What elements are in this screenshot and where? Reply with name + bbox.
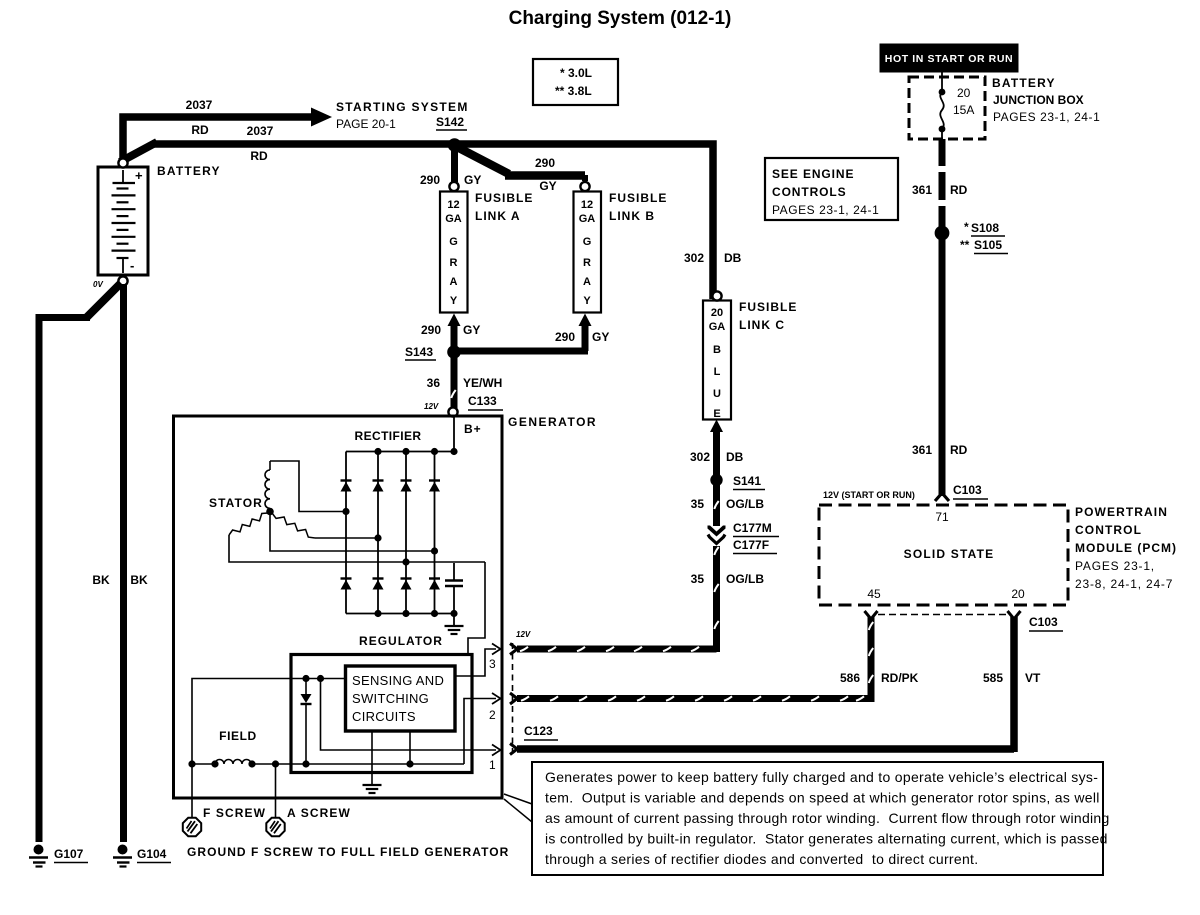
generator box bbox=[174, 416, 503, 798]
junction dots bottom bus bbox=[374, 610, 457, 617]
svg-text:U: U bbox=[713, 388, 721, 400]
rectifier diode D8 (lower) bbox=[429, 579, 440, 590]
pin 71 label bbox=[935, 510, 949, 524]
svg-text:C177F: C177F bbox=[733, 538, 769, 552]
svg-text:GA: GA bbox=[709, 321, 726, 333]
svg-text:RD: RD bbox=[250, 149, 268, 163]
svg-text:A: A bbox=[583, 276, 591, 288]
C177F label bbox=[733, 538, 777, 554]
svg-text:15A: 15A bbox=[953, 103, 974, 117]
svg-text:R: R bbox=[450, 257, 458, 269]
wire to G107 bbox=[36, 314, 90, 842]
pin 2 label bbox=[489, 708, 496, 722]
svg-text:12V: 12V bbox=[516, 630, 531, 639]
svg-text:35: 35 bbox=[691, 497, 705, 511]
svg-text:GA: GA bbox=[579, 213, 596, 225]
label 2037 (wire1) bbox=[186, 98, 213, 112]
rectifier column 3 wire bbox=[405, 452, 407, 614]
svg-text:B+: B+ bbox=[464, 422, 482, 436]
connector C177F (female half) bbox=[708, 535, 725, 544]
sensing lead 2 bbox=[409, 731, 411, 764]
wire field-left to sensing box bbox=[192, 679, 346, 765]
junction dots top bus bbox=[374, 448, 457, 455]
fusible link A label bbox=[475, 191, 533, 223]
fusible link C bottom arrow bbox=[710, 420, 723, 433]
label 290 (S142-B) bbox=[535, 156, 555, 170]
label RD (wire2) bbox=[250, 149, 268, 163]
svg-text:G104: G104 bbox=[137, 847, 167, 861]
junction dot center-col4 bbox=[431, 547, 438, 554]
A screw label bbox=[287, 806, 351, 820]
label 2037 (wire2) bbox=[247, 124, 274, 138]
connector C123 dashed line bbox=[512, 643, 514, 757]
fuse value labels bbox=[953, 86, 974, 117]
svg-text:PAGES 23-1, 24-1: PAGES 23-1, 24-1 bbox=[993, 110, 1100, 124]
svg-text:2037: 2037 bbox=[247, 124, 274, 138]
ground G104 symbol bbox=[113, 845, 132, 867]
fusible link B label bbox=[609, 191, 667, 223]
regulator box bbox=[291, 655, 472, 773]
label RD/PK bbox=[881, 671, 919, 685]
svg-text:BATTERY: BATTERY bbox=[992, 76, 1056, 90]
svg-text:G: G bbox=[583, 236, 592, 248]
field label bbox=[219, 729, 257, 743]
wire pin1 branch bbox=[321, 679, 497, 751]
svg-text:RD: RD bbox=[950, 183, 968, 197]
svg-text:DB: DB bbox=[724, 251, 742, 265]
rectifier label bbox=[355, 429, 422, 443]
svg-text:CIRCUITS: CIRCUITS bbox=[352, 709, 416, 724]
wire 361 RD bbox=[937, 139, 947, 496]
F screw label bbox=[203, 806, 266, 820]
stator winding C (zigzag to right) bbox=[272, 513, 315, 538]
svg-text:RD: RD bbox=[950, 443, 968, 457]
junction dot zener top bbox=[302, 675, 309, 682]
svg-text:GY: GY bbox=[463, 323, 480, 337]
svg-text:GY: GY bbox=[464, 173, 481, 187]
zener diode CR1 bbox=[301, 679, 312, 765]
C103 label (pin71) bbox=[953, 483, 988, 499]
stator center tap lead to diode column 4 bbox=[270, 512, 435, 552]
svg-text:35: 35 bbox=[691, 572, 705, 586]
junction dot pin1 branch bbox=[317, 675, 324, 682]
label RD (lower) bbox=[950, 443, 968, 457]
label 586 bbox=[840, 671, 860, 685]
svg-text:C103: C103 bbox=[953, 483, 982, 497]
svg-text:3: 3 bbox=[489, 657, 496, 671]
svg-text:BK: BK bbox=[92, 573, 110, 587]
label RD (upper) bbox=[950, 183, 968, 197]
ground G107 symbol bbox=[29, 845, 48, 867]
svg-text:HOT IN START OR RUN: HOT IN START OR RUN bbox=[885, 53, 1013, 65]
svg-text:R: R bbox=[583, 257, 591, 269]
svg-text:DB: DB bbox=[726, 450, 744, 464]
fuse 20A bbox=[939, 72, 946, 141]
svg-text:* 3.0L: * 3.0L bbox=[560, 66, 592, 80]
rectifier bottom bus bbox=[346, 613, 454, 615]
note box bbox=[532, 762, 1110, 875]
battery - terminal bbox=[118, 276, 127, 285]
label OG/LB (upper) bbox=[726, 497, 764, 511]
label 290 (S142-A) bbox=[420, 173, 440, 187]
rectifier diode D3 (upper) bbox=[401, 481, 412, 492]
fusible link C box bbox=[703, 301, 731, 421]
label GY (S142-A) bbox=[464, 173, 481, 187]
junction dot phase1-col1 bbox=[342, 508, 349, 515]
svg-text:LINK A: LINK A bbox=[475, 209, 521, 223]
ground note text bbox=[187, 845, 509, 859]
label GY (S142-B) bbox=[539, 179, 556, 193]
C133 label bbox=[468, 394, 503, 410]
wire S142 to fusible link A bbox=[451, 148, 458, 182]
svg-text:585: 585 bbox=[983, 671, 1003, 685]
label BK (left) bbox=[92, 573, 110, 587]
wire C177M to S141 bbox=[714, 482, 718, 526]
svg-text:S142: S142 bbox=[436, 115, 464, 129]
pin 3 arrow bbox=[492, 644, 501, 655]
legend box 3.0L/3.8L bbox=[533, 59, 618, 105]
wire S143 to C133 bbox=[451, 355, 455, 408]
svg-text:2037: 2037 bbox=[186, 98, 213, 112]
sensing ground lead bbox=[371, 731, 373, 784]
label 302 (upper) bbox=[684, 251, 704, 265]
splice S108/S105 bbox=[935, 226, 950, 241]
battery + terminal bbox=[118, 158, 127, 167]
rectifier diode D2 (upper) bbox=[373, 481, 384, 492]
svg-text:20: 20 bbox=[957, 86, 971, 100]
svg-text:0V: 0V bbox=[93, 280, 103, 289]
pin 45 label bbox=[867, 587, 881, 601]
wire battery+ to starting system bbox=[123, 117, 313, 160]
svg-text:290: 290 bbox=[535, 156, 555, 170]
svg-text:STARTING SYSTEM: STARTING SYSTEM bbox=[336, 100, 469, 114]
junction dot phase3-col2 bbox=[374, 534, 381, 541]
svg-text:RD/PK: RD/PK bbox=[881, 671, 919, 685]
label VT bbox=[1025, 671, 1041, 685]
svg-text:12V (START OR RUN): 12V (START OR RUN) bbox=[823, 490, 915, 500]
svg-text:-: - bbox=[130, 258, 134, 273]
svg-text:C103: C103 bbox=[1029, 615, 1058, 629]
splice S143 bbox=[447, 345, 461, 359]
connector at PCM pin71 bbox=[935, 493, 949, 501]
wire S141 to link C bbox=[713, 432, 720, 478]
stator common junction dot bbox=[266, 508, 274, 516]
rectifier diode D5 (lower) bbox=[341, 579, 352, 590]
svg-text:GY: GY bbox=[592, 330, 609, 344]
svg-text:C123: C123 bbox=[524, 724, 553, 738]
label OG/LB (lower) bbox=[726, 572, 764, 586]
S108 label bbox=[964, 220, 1005, 236]
connector chevron pin1 bbox=[510, 744, 517, 755]
label 361 (lower) bbox=[912, 443, 932, 457]
svg-text:45: 45 bbox=[867, 587, 881, 601]
capacitor C (rectifier) bbox=[445, 563, 463, 614]
svg-text:GROUND F SCREW TO FULL FIELD G: GROUND F SCREW TO FULL FIELD GENERATOR bbox=[187, 845, 509, 859]
svg-text:36: 36 bbox=[427, 376, 441, 390]
fusible link A terminal top bbox=[449, 182, 458, 191]
svg-text:PAGE 20-1: PAGE 20-1 bbox=[336, 117, 396, 131]
svg-text:LINK B: LINK B bbox=[609, 209, 655, 223]
connector at PCM pin45 bbox=[865, 611, 878, 619]
label 585 bbox=[983, 671, 1003, 685]
svg-text:12: 12 bbox=[447, 199, 459, 211]
svg-text:S105: S105 bbox=[974, 238, 1002, 252]
battery junction box text bbox=[992, 76, 1100, 124]
svg-text:REGULATOR: REGULATOR bbox=[359, 634, 443, 648]
svg-text:361: 361 bbox=[912, 183, 932, 197]
fusible link C label bbox=[739, 300, 797, 332]
svg-text:as amount of current passing t: as amount of current passing through rot… bbox=[545, 810, 1110, 826]
S105 label bbox=[960, 238, 1008, 254]
svg-text:BK: BK bbox=[130, 573, 148, 587]
label 36 bbox=[427, 376, 441, 390]
pcm text block bbox=[1075, 505, 1177, 591]
svg-text:*: * bbox=[964, 220, 969, 234]
G107 label bbox=[54, 847, 88, 863]
svg-text:SEE ENGINE: SEE ENGINE bbox=[772, 167, 854, 181]
C103 label (pin20) bbox=[1029, 615, 1063, 631]
svg-text:FUSIBLE: FUSIBLE bbox=[475, 191, 533, 205]
rectifier diode D6 (lower) bbox=[373, 579, 384, 590]
wire sensing box to pin3 bbox=[455, 649, 496, 676]
svg-text:OG/LB: OG/LB bbox=[726, 572, 764, 586]
label 35 (upper) bbox=[691, 497, 705, 511]
battery junction box dashed bbox=[909, 77, 985, 139]
label DB (lower) bbox=[726, 450, 744, 464]
wire stator line to regulator top bbox=[468, 562, 485, 654]
fusible link B bottom arrow bbox=[579, 314, 592, 352]
svg-text:A SCREW: A SCREW bbox=[287, 806, 351, 820]
svg-text:GENERATOR: GENERATOR bbox=[508, 415, 597, 429]
svg-text:LINK C: LINK C bbox=[739, 318, 785, 332]
generator label bbox=[508, 415, 597, 429]
title text bbox=[509, 8, 732, 29]
svg-text:S141: S141 bbox=[733, 474, 761, 488]
svg-text:JUNCTION BOX: JUNCTION BOX bbox=[993, 93, 1084, 107]
solid state label bbox=[904, 547, 995, 561]
svg-text:VT: VT bbox=[1025, 671, 1041, 685]
label 12V (START OR RUN) bbox=[823, 490, 915, 500]
rectifier diode D1 (upper) bbox=[341, 481, 352, 492]
stator label bbox=[209, 496, 263, 510]
stator winding A and lead to diode column 1 bbox=[265, 461, 346, 512]
label 290 (A-S143) bbox=[421, 323, 441, 337]
svg-text:STATOR: STATOR bbox=[209, 496, 263, 510]
svg-text:G107: G107 bbox=[54, 847, 84, 861]
svg-text:290: 290 bbox=[420, 173, 440, 187]
svg-text:FIELD: FIELD bbox=[219, 729, 257, 743]
label DB (upper) bbox=[724, 251, 742, 265]
svg-text:Y: Y bbox=[583, 295, 591, 307]
stator winding C lead to diode column 2 bbox=[315, 537, 378, 539]
sensing and switching circuits box bbox=[346, 666, 456, 731]
junction dot phaseB-col3 bbox=[402, 558, 409, 565]
splice S141 bbox=[710, 474, 722, 486]
label 302 (lower) bbox=[690, 450, 710, 464]
hot in start or run box bbox=[880, 44, 1018, 72]
svg-text:F SCREW: F SCREW bbox=[203, 806, 266, 820]
fusible link A box bbox=[440, 192, 468, 313]
svg-text:12: 12 bbox=[581, 199, 593, 211]
wire to F screw bbox=[191, 764, 193, 817]
svg-text:71: 71 bbox=[935, 510, 949, 524]
svg-text:FUSIBLE: FUSIBLE bbox=[609, 191, 667, 205]
svg-text:SOLID STATE: SOLID STATE bbox=[904, 547, 995, 561]
label 361 (upper) bbox=[912, 183, 932, 197]
svg-text:23-8, 24-1, 24-7: 23-8, 24-1, 24-7 bbox=[1075, 577, 1173, 591]
field line bbox=[192, 763, 464, 765]
label GY (A-S143) bbox=[463, 323, 480, 337]
svg-text:C177M: C177M bbox=[733, 521, 772, 535]
svg-text:RD: RD bbox=[191, 123, 209, 137]
wire link B bottom to S143 bbox=[454, 348, 588, 355]
svg-text:is controlled by built-in regu: is controlled by built-in regulator. Sta… bbox=[545, 831, 1108, 847]
svg-text:**: ** bbox=[960, 238, 970, 252]
A screw bbox=[266, 818, 284, 836]
svg-text:B: B bbox=[713, 344, 721, 356]
F screw bbox=[183, 818, 201, 836]
pin 2 arrow bbox=[492, 693, 501, 704]
wire pin1 to PCM pin20 (585 VT) bbox=[517, 617, 1014, 752]
svg-text:1: 1 bbox=[489, 758, 496, 772]
wire battery+ to S142 and fusible link C corner bbox=[120, 142, 713, 299]
svg-text:Y: Y bbox=[450, 295, 458, 307]
svg-text:** 3.8L: ** 3.8L bbox=[555, 84, 592, 98]
svg-text:361: 361 bbox=[912, 443, 932, 457]
wire pin3 to C177F (12V OG/LB) bbox=[517, 546, 719, 652]
label B+ bbox=[464, 422, 482, 436]
S143 label bbox=[405, 345, 436, 360]
svg-text:L: L bbox=[714, 366, 721, 378]
svg-text:290: 290 bbox=[421, 323, 441, 337]
svg-text:290: 290 bbox=[555, 330, 575, 344]
connector link dashed 45-20 bbox=[878, 614, 1007, 616]
arrowhead starting system bbox=[311, 108, 332, 127]
rectifier diode D4 (upper) bbox=[429, 481, 440, 492]
svg-text:20: 20 bbox=[711, 307, 723, 319]
see engine controls box bbox=[765, 158, 898, 220]
svg-text:SENSING AND: SENSING AND bbox=[352, 673, 444, 688]
svg-text:BATTERY: BATTERY bbox=[157, 164, 221, 178]
rectifier column 1 wire bbox=[345, 452, 347, 614]
rectifier column 4 wire bbox=[434, 452, 436, 614]
svg-text:MODULE (PCM): MODULE (PCM) bbox=[1075, 541, 1177, 555]
pin 20 label bbox=[1011, 587, 1025, 601]
wire B+ to rectifier bus bbox=[453, 417, 455, 452]
svg-text:YE/WH: YE/WH bbox=[463, 376, 502, 390]
svg-text:CONTROLS: CONTROLS bbox=[772, 185, 847, 199]
connector chevron pin3 bbox=[510, 644, 517, 655]
svg-text:RECTIFIER: RECTIFIER bbox=[355, 429, 422, 443]
svg-text:CONTROL: CONTROL bbox=[1075, 523, 1142, 537]
C123 label bbox=[524, 724, 558, 740]
svg-text:C133: C133 bbox=[468, 394, 497, 408]
svg-text:302: 302 bbox=[684, 251, 704, 265]
connector C177M (male half) bbox=[708, 526, 726, 537]
powertrain control module dashed box bbox=[819, 505, 1068, 605]
label YE/WH bbox=[463, 376, 502, 390]
label BK (right) bbox=[130, 573, 148, 587]
svg-text:OG/LB: OG/LB bbox=[726, 497, 764, 511]
svg-text:tem. Output is variable and d: tem. Output is variable and depends on s… bbox=[545, 790, 1100, 806]
connector C133 terminal bbox=[448, 407, 457, 416]
svg-text:+: + bbox=[135, 168, 143, 183]
starting system text bbox=[336, 100, 469, 131]
pin 1 label bbox=[489, 758, 496, 772]
label 290 (B-S143) bbox=[555, 330, 575, 344]
svg-text:GY: GY bbox=[539, 179, 556, 193]
battery label bbox=[157, 164, 221, 178]
fusible link B box bbox=[574, 192, 602, 313]
svg-text:12V: 12V bbox=[424, 402, 439, 411]
svg-text:20: 20 bbox=[1011, 587, 1025, 601]
regulator ground bbox=[363, 785, 382, 793]
svg-text:2: 2 bbox=[489, 708, 496, 722]
label 35 (lower) bbox=[691, 572, 705, 586]
connector at PCM pin20 bbox=[1008, 611, 1021, 619]
wire S142 to fusible link B bbox=[457, 147, 585, 181]
pin 3 label bbox=[489, 657, 496, 671]
field line junction dots bbox=[188, 760, 413, 767]
svg-text:SWITCHING: SWITCHING bbox=[352, 691, 429, 706]
battery bbox=[98, 167, 148, 275]
svg-text:through a series of rectifier: through a series of rectifier diodes and… bbox=[545, 851, 978, 867]
svg-text:E: E bbox=[713, 408, 720, 420]
svg-text:S143: S143 bbox=[405, 345, 433, 359]
svg-text:PAGES 23-1,: PAGES 23-1, bbox=[1075, 559, 1155, 573]
svg-text:GA: GA bbox=[445, 213, 462, 225]
splice S142 bbox=[448, 138, 462, 152]
label RD (wire1) bbox=[191, 123, 209, 137]
rectifier ground bbox=[445, 614, 464, 635]
svg-text:586: 586 bbox=[840, 671, 860, 685]
wire pin2 to PCM pin45 (586 RD/PK) bbox=[517, 617, 873, 702]
C177M label bbox=[733, 521, 779, 537]
S142 label bbox=[436, 115, 467, 130]
field coil bbox=[215, 760, 251, 764]
wire battery- to G104 bbox=[87, 283, 124, 842]
S141 label bbox=[733, 474, 765, 490]
rectifier top bus bbox=[346, 451, 454, 453]
rectifier diode D7 (lower) bbox=[401, 579, 412, 590]
svg-text:302: 302 bbox=[690, 450, 710, 464]
regulator label bbox=[359, 634, 443, 648]
wire to A screw bbox=[275, 764, 277, 817]
svg-text:Charging System (012-1): Charging System (012-1) bbox=[509, 8, 732, 29]
svg-text:S108: S108 bbox=[971, 221, 999, 235]
0V label bbox=[93, 280, 103, 289]
fusible link C terminal top bbox=[712, 291, 721, 300]
svg-text:POWERTRAIN: POWERTRAIN bbox=[1075, 505, 1168, 519]
connector chevron pin2 bbox=[510, 693, 517, 704]
pin 1 arrow bbox=[492, 745, 501, 756]
rectifier column 2 wire bbox=[377, 452, 379, 614]
svg-text:PAGES 23-1, 24-1: PAGES 23-1, 24-1 bbox=[772, 203, 879, 217]
svg-text:G: G bbox=[449, 236, 458, 248]
fusible link A bottom arrow bbox=[448, 314, 461, 353]
svg-text:A: A bbox=[450, 276, 458, 288]
label GY (B-S143) bbox=[592, 330, 609, 344]
G104 label bbox=[137, 847, 171, 863]
stator winding B (zigzag to left) bbox=[229, 513, 268, 535]
label 12V at C133 bbox=[424, 402, 439, 411]
wire pin2 branch bbox=[464, 699, 496, 765]
svg-text:Generates power to keep batter: Generates power to keep battery fully ch… bbox=[545, 769, 1098, 785]
label 12V at pin3 bbox=[516, 630, 531, 639]
stator winding B lead to diode column 3 bbox=[229, 535, 485, 562]
svg-text:FUSIBLE: FUSIBLE bbox=[739, 300, 797, 314]
fusible link B terminal top bbox=[580, 182, 589, 191]
